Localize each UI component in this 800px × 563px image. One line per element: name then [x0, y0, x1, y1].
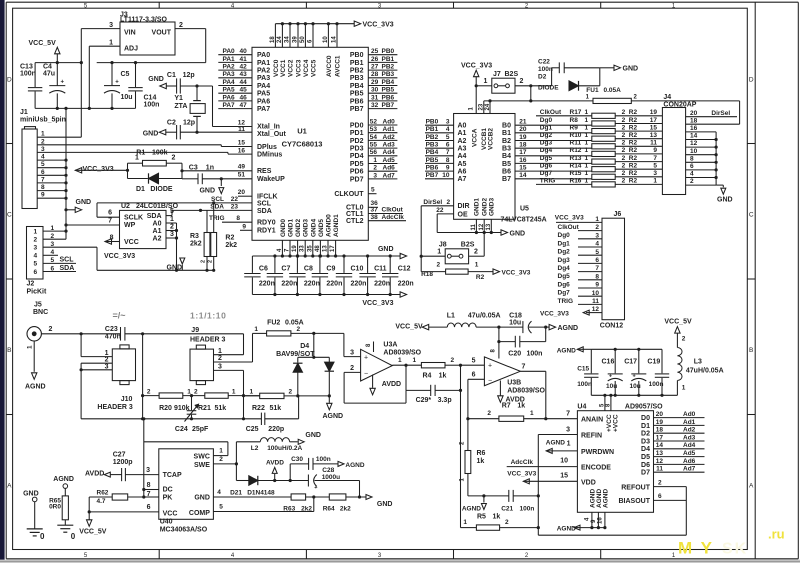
- trimmer capacitor C24 25pF: [175, 394, 209, 433]
- svg-text:J1: J1: [20, 109, 28, 116]
- svg-text:A: A: [7, 483, 12, 490]
- wire U3B output: [520, 370, 546, 372]
- svg-text:C9: C9: [326, 266, 335, 273]
- svg-text:AGND: AGND: [558, 325, 579, 332]
- svg-text:1: 1: [585, 140, 589, 147]
- svg-text:VCC_5V: VCC_5V: [664, 318, 692, 325]
- wire DirSel to J8: [420, 206, 422, 272]
- svg-text:−: −: [364, 371, 368, 378]
- svg-text:54: 54: [370, 134, 378, 141]
- wire GND rail top-left: [35, 107, 135, 109]
- svg-text:PA7: PA7: [223, 102, 236, 109]
- svg-text:15: 15: [650, 124, 658, 131]
- svg-text:AdcClk: AdcClk: [382, 214, 405, 221]
- svg-text:5: 5: [41, 161, 45, 168]
- wire VCC_5V rail: [35, 62, 81, 64]
- svg-text:PB6: PB6: [426, 165, 439, 172]
- svg-text:9: 9: [41, 192, 45, 199]
- wire U3B inverting input: [468, 378, 485, 380]
- resistor R2 2k2: [208, 203, 238, 270]
- svg-text:=/~: =/~: [113, 310, 126, 320]
- diode D4 BAV99/SOT: [276, 333, 334, 397]
- capacitor C7 220n: [267, 254, 298, 296]
- wire SCL net: [97, 202, 252, 204]
- svg-text:25: 25: [371, 48, 379, 55]
- resistor R62 4.7: [89, 490, 144, 512]
- svg-text:PA1: PA1: [223, 56, 236, 63]
- wire analog supply top rail: [591, 348, 662, 350]
- svg-text:100k: 100k: [152, 149, 168, 156]
- wire ground rail mid-left: [97, 269, 214, 271]
- svg-text:11: 11: [650, 140, 657, 147]
- crystal Y1 ZTA: [174, 84, 205, 133]
- svg-text:A2: A2: [458, 138, 467, 145]
- svg-text:GND: GND: [194, 495, 210, 502]
- svg-text:CY7C68013: CY7C68013: [282, 139, 323, 148]
- svg-text:Dg6: Dg6: [558, 281, 571, 288]
- svg-text:Dg4: Dg4: [558, 265, 571, 272]
- resistor R64 2k2: [323, 494, 366, 513]
- U5 GND pins: [471, 198, 495, 235]
- svg-text:1000u: 1000u: [322, 474, 340, 481]
- svg-text:B7: B7: [502, 176, 511, 183]
- diode D2: [538, 73, 600, 91]
- svg-text:6: 6: [658, 493, 662, 500]
- svg-text:DIODE: DIODE: [538, 85, 559, 92]
- svg-text:GND4: GND4: [310, 219, 317, 237]
- svg-text:2: 2: [622, 124, 626, 131]
- svg-text:PA4: PA4: [223, 79, 236, 86]
- resistor R6 1k: [460, 419, 486, 496]
- svg-text:22: 22: [436, 207, 444, 214]
- ground arrow GND at C1: [148, 76, 166, 89]
- svg-text:15: 15: [238, 140, 246, 147]
- svg-text:B0: B0: [502, 123, 511, 130]
- svg-text:37: 37: [371, 207, 379, 214]
- wire OE to ground: [436, 214, 438, 233]
- power arrow VCC_3V3 at R1: [75, 166, 129, 173]
- svg-text:A4: A4: [458, 153, 467, 160]
- power arrow VCC_3V3 above U1: [354, 21, 394, 29]
- svg-text:2: 2: [447, 199, 451, 206]
- svg-text:C7: C7: [281, 266, 290, 273]
- resistor R20 910k: [143, 388, 205, 411]
- svg-text:VCC: VCC: [124, 239, 139, 246]
- svg-text:74LVC8T245A: 74LVC8T245A: [501, 216, 547, 223]
- svg-text:A3: A3: [458, 146, 467, 153]
- capacitor C13 100n: [20, 63, 42, 109]
- svg-text:PK: PK: [163, 495, 173, 502]
- svg-text:1: 1: [475, 262, 479, 269]
- svg-text:PB2: PB2: [382, 64, 395, 71]
- U1 VCC pin names: [273, 55, 342, 77]
- svg-text:14: 14: [332, 36, 338, 43]
- svg-text:56: 56: [370, 149, 378, 156]
- wire divider bottom rail: [81, 418, 261, 420]
- svg-text:J10: J10: [121, 396, 133, 403]
- svg-text:RDY0: RDY0: [257, 220, 276, 227]
- svg-text:J6: J6: [614, 211, 622, 218]
- capacitor C21 100n: [501, 490, 538, 512]
- capacitor C23 470n: [80, 326, 244, 341]
- wire FU2 out to opamp: [312, 332, 315, 335]
- regulator J3 LT1117-3.3/SO: [109, 12, 183, 56]
- svg-text:U4: U4: [577, 404, 586, 411]
- svg-text:SDA: SDA: [210, 203, 224, 210]
- svg-text:Ad7: Ad7: [383, 172, 396, 179]
- ground arrow GND at J4: [717, 188, 733, 203]
- svg-text:R62: R62: [97, 490, 109, 497]
- wire J9 pin3 to divider tap: [214, 369, 244, 371]
- svg-text:1: 1: [170, 216, 174, 223]
- svg-text:CLKOUT: CLKOUT: [334, 191, 364, 198]
- svg-text:R6: R6: [477, 450, 486, 457]
- svg-text:220n: 220n: [398, 281, 414, 288]
- svg-text:1: 1: [585, 163, 589, 170]
- svg-text:10u: 10u: [606, 383, 617, 390]
- svg-text:220n: 220n: [304, 281, 320, 288]
- wire VCC_3V3 rail: [97, 62, 206, 64]
- svg-text:R2: R2: [629, 117, 638, 124]
- svg-text:VCC1: VCC1: [280, 59, 287, 77]
- svg-text:4: 4: [690, 171, 694, 178]
- svg-text:10: 10: [323, 36, 329, 43]
- svg-text:U2: U2: [121, 203, 130, 210]
- svg-text:GND: GND: [143, 130, 159, 137]
- svg-text:AVDD: AVDD: [382, 381, 401, 388]
- svg-text:2: 2: [218, 355, 222, 362]
- svg-text:51k: 51k: [215, 405, 227, 412]
- svg-text:VCC_3V3: VCC_3V3: [502, 269, 531, 276]
- svg-text:16: 16: [690, 125, 698, 132]
- ground arrow GND mid: [167, 258, 185, 272]
- svg-text:40: 40: [240, 48, 248, 55]
- svg-text:AD8039/SO: AD8039/SO: [507, 387, 545, 394]
- svg-text:D3: D3: [641, 438, 650, 445]
- svg-text:AGND: AGND: [462, 505, 481, 512]
- svg-text:AGND: AGND: [557, 347, 576, 354]
- capacitor C2 12p: [166, 119, 252, 139]
- svg-text:VCC0: VCC0: [273, 59, 280, 77]
- wire U3B non-inverting input: [461, 364, 485, 366]
- U1 CLKOUT pin: [334, 186, 376, 198]
- wire J1 pin2 DPlus: [37, 144, 221, 146]
- svg-text:D: D: [749, 77, 754, 84]
- svg-text:R14: R14: [570, 163, 582, 170]
- capacitor C8 220n: [289, 254, 320, 296]
- svg-text:3: 3: [218, 363, 222, 370]
- svg-text:U3B: U3B: [507, 380, 521, 387]
- svg-text:Ad5: Ad5: [383, 157, 396, 164]
- svg-text:1: 1: [585, 170, 589, 177]
- U5 B-side pins: [502, 119, 592, 184]
- svg-text:L3: L3: [694, 358, 702, 365]
- svg-text:VCC_3V3: VCC_3V3: [83, 166, 114, 173]
- power symbol AVDD below U3A: [370, 375, 401, 395]
- svg-text:D2: D2: [641, 431, 650, 438]
- svg-text:Ad4: Ad4: [683, 442, 696, 449]
- svg-text:PA2: PA2: [223, 64, 236, 71]
- svg-text:AGND: AGND: [603, 489, 610, 508]
- svg-text:B6: B6: [502, 169, 511, 176]
- svg-text:10: 10: [690, 148, 698, 155]
- ground arrow AGND below U4: [557, 525, 581, 532]
- U4 REFIN wire: [537, 427, 578, 536]
- svg-text:1: 1: [34, 228, 38, 235]
- U1 CTL pins: [346, 200, 406, 225]
- svg-text:100n: 100n: [520, 505, 535, 512]
- svg-text:Xtal_In: Xtal_In: [257, 124, 280, 131]
- wire input node vertical: [142, 334, 144, 419]
- power symbol VCC_5V: [29, 40, 61, 64]
- U3A input pin numbers: [350, 349, 354, 372]
- capacitor C11 220n: [359, 254, 390, 296]
- svg-text:4: 4: [446, 126, 450, 133]
- svg-text:R21: R21: [198, 405, 211, 412]
- svg-text:3: 3: [566, 427, 570, 434]
- svg-text:6: 6: [34, 269, 38, 276]
- svg-text:0: 0: [40, 532, 45, 541]
- diode D1: [128, 173, 183, 193]
- svg-text:7: 7: [41, 176, 45, 183]
- svg-text:SCL: SCL: [257, 200, 272, 207]
- svg-text:32: 32: [371, 102, 379, 109]
- svg-text:C: C: [749, 212, 754, 219]
- svg-text:R5: R5: [477, 514, 486, 521]
- connector J6 CON12: [600, 211, 625, 329]
- svg-text:47u: 47u: [43, 70, 55, 77]
- power arrow VCC_3V3 at U2: [104, 239, 135, 260]
- wire U2 WP to bus: [66, 224, 120, 226]
- svg-text:1: 1: [398, 357, 402, 364]
- ground arrow GND at C3: [199, 179, 223, 195]
- svg-text:R2: R2: [629, 132, 638, 139]
- svg-text:GND1: GND1: [474, 198, 481, 216]
- svg-text:51k: 51k: [270, 405, 282, 412]
- resistor R5 1k: [461, 514, 539, 531]
- svg-text:7: 7: [653, 155, 657, 162]
- svg-text:+: +: [61, 80, 65, 86]
- power symbol AVDD below U3B: [498, 381, 525, 404]
- svg-text:8: 8: [690, 155, 694, 162]
- svg-text:2: 2: [622, 140, 626, 147]
- svg-text:44: 44: [240, 79, 248, 86]
- svg-text:CON12: CON12: [600, 322, 623, 329]
- svg-text:C11: C11: [374, 266, 387, 273]
- svg-text:1: 1: [585, 155, 589, 162]
- svg-text:Ad2: Ad2: [383, 134, 396, 141]
- svg-text:5: 5: [653, 163, 657, 170]
- wire U40 VCC pin: [88, 504, 159, 514]
- resistor R1 100k: [128, 149, 183, 178]
- svg-text:BNC: BNC: [33, 309, 48, 316]
- svg-text:17: 17: [650, 117, 658, 124]
- svg-text:55: 55: [370, 142, 378, 149]
- IC U5 74LVC8T245A: [454, 114, 547, 224]
- svg-text:+: +: [314, 485, 317, 491]
- svg-text:220n: 220n: [259, 281, 275, 288]
- svg-text:5: 5: [170, 208, 174, 215]
- svg-text:J5: J5: [34, 301, 42, 308]
- svg-text:2: 2: [520, 78, 524, 85]
- svg-text:1: 1: [218, 348, 222, 355]
- svg-text:DMinus: DMinus: [257, 152, 282, 159]
- power symbol VCC_5V at L3: [664, 318, 692, 347]
- svg-text:SDA: SDA: [257, 208, 272, 215]
- svg-text:B: B: [749, 347, 753, 354]
- U4 data pins D0-D7: [641, 411, 704, 477]
- svg-text:TRIG: TRIG: [558, 298, 574, 305]
- U4 ENCODE wire AdcClk: [507, 457, 578, 466]
- svg-text:PB5: PB5: [382, 87, 395, 94]
- ground arrow AGND at D4: [323, 396, 344, 420]
- wire J4 pin20 DirSel: [686, 110, 737, 117]
- svg-text:AGND: AGND: [323, 413, 344, 420]
- svg-text:PB1: PB1: [382, 56, 395, 63]
- resistor R9 R2: [540, 124, 663, 133]
- svg-text:B1: B1: [502, 130, 511, 137]
- U1 RDY pins and TRIG net: [209, 215, 276, 235]
- svg-text:R4: R4: [423, 373, 432, 380]
- svg-text:VCC_3V3: VCC_3V3: [363, 22, 394, 29]
- svg-text:C1: C1: [167, 72, 176, 79]
- svg-text:49: 49: [238, 164, 246, 171]
- svg-text:D2: D2: [538, 73, 547, 80]
- svg-text:+: +: [609, 373, 612, 379]
- svg-text:11: 11: [592, 298, 599, 305]
- svg-text:PB5: PB5: [350, 91, 364, 98]
- svg-text:SWC: SWC: [194, 454, 210, 461]
- ground arrow GND at L2: [298, 432, 321, 444]
- svg-text:Ad6: Ad6: [683, 458, 696, 465]
- svg-text:Ad3: Ad3: [683, 434, 696, 441]
- capacitor C12 220n: [382, 254, 414, 296]
- svg-text:GND: GND: [199, 188, 215, 195]
- svg-text:12: 12: [592, 306, 600, 313]
- svg-text:1: 1: [413, 357, 417, 364]
- svg-text:ANAIN: ANAIN: [581, 417, 603, 424]
- svg-text:C14: C14: [144, 95, 157, 102]
- op-amp U3B AD8039/SO: [484, 349, 545, 395]
- svg-text:2: 2: [682, 336, 686, 343]
- svg-text:DirSel: DirSel: [423, 199, 442, 206]
- capacitor C14 100n: [128, 63, 159, 109]
- svg-text:47uH/0.05A: 47uH/0.05A: [686, 368, 724, 375]
- svg-text:GND5: GND5: [318, 219, 325, 237]
- svg-text:PA7: PA7: [257, 106, 270, 113]
- svg-text:R9: R9: [570, 124, 579, 131]
- svg-text:52: 52: [370, 118, 378, 125]
- capacitor C30 100n: [290, 456, 337, 480]
- resistor R8 R2: [540, 117, 663, 126]
- svg-text:27: 27: [371, 64, 379, 71]
- resistor R16 R2: [536, 178, 662, 187]
- svg-text:Dg4: Dg4: [540, 147, 553, 154]
- svg-text:M Y: M Y: [678, 539, 714, 558]
- svg-text:R8: R8: [570, 117, 579, 124]
- wires J6 signal pins: [558, 224, 603, 305]
- svg-text:R2: R2: [629, 109, 638, 116]
- svg-text:25pF: 25pF: [192, 426, 209, 433]
- diode D21 D1N4148: [230, 476, 308, 497]
- svg-text:2: 2: [350, 365, 354, 372]
- U5 DIR OE pins: [421, 199, 469, 218]
- svg-text:2: 2: [622, 132, 626, 139]
- svg-text:PB7: PB7: [350, 106, 364, 113]
- svg-text:11: 11: [656, 466, 663, 473]
- svg-text:D1N4148: D1N4148: [247, 490, 275, 497]
- inductor L2 100uH/0.2A: [236, 438, 302, 452]
- svg-text:A7: A7: [458, 176, 467, 183]
- svg-text:1: 1: [595, 216, 599, 223]
- svg-text:R3: R3: [190, 233, 199, 240]
- svg-text:1: 1: [373, 157, 377, 164]
- svg-text:A6: A6: [458, 169, 467, 176]
- svg-text:VCC4: VCC4: [303, 59, 310, 77]
- svg-text:2: 2: [373, 165, 377, 172]
- svg-text:R22: R22: [252, 405, 265, 412]
- svg-text:HEADER 3: HEADER 3: [190, 337, 226, 344]
- svg-text:GND: GND: [623, 66, 639, 73]
- svg-text:C18: C18: [509, 312, 522, 319]
- svg-text:220n: 220n: [351, 281, 367, 288]
- svg-text:PB4: PB4: [426, 149, 439, 156]
- svg-text:18: 18: [656, 427, 664, 434]
- svg-text:GND1: GND1: [288, 219, 295, 237]
- svg-text:VCC3: VCC3: [296, 59, 303, 77]
- wire SWE node: [213, 442, 238, 481]
- svg-text:0R0: 0R0: [49, 504, 61, 511]
- svg-text:A0: A0: [153, 220, 162, 227]
- svg-text:Dg7: Dg7: [540, 170, 553, 177]
- op-amp U3A AD8039/SO: [361, 341, 422, 381]
- svg-text:miniUsb_5pin: miniUsb_5pin: [20, 117, 66, 124]
- capacitor C22 100n: [538, 59, 600, 74]
- svg-text:J9: J9: [191, 327, 199, 334]
- svg-text:DIR: DIR: [458, 203, 470, 210]
- svg-text:12: 12: [656, 458, 664, 465]
- svg-text:TRIG: TRIG: [209, 215, 225, 222]
- svg-text:Dg7: Dg7: [558, 290, 571, 297]
- svg-text:Ad4: Ad4: [383, 149, 396, 156]
- svg-text:PB2: PB2: [350, 68, 364, 75]
- svg-text:GND: GND: [378, 246, 394, 253]
- svg-text:220p: 220p: [268, 426, 284, 433]
- svg-text:18: 18: [690, 117, 698, 124]
- svg-text:1: 1: [585, 124, 589, 131]
- svg-text:3: 3: [373, 172, 377, 179]
- power symbol AVDD at D21: [266, 460, 284, 481]
- svg-text:1: 1: [254, 326, 258, 333]
- svg-text:2: 2: [172, 154, 176, 161]
- svg-text:9: 9: [446, 165, 450, 172]
- svg-text:Ad7: Ad7: [683, 466, 696, 473]
- svg-text:10: 10: [560, 457, 568, 464]
- svg-text:PB3: PB3: [350, 75, 364, 82]
- svg-text:BIASOUT: BIASOUT: [619, 498, 651, 505]
- svg-text:GND3: GND3: [303, 219, 310, 237]
- svg-text:C27: C27: [113, 451, 126, 458]
- svg-text:B2S: B2S: [461, 242, 475, 249]
- U1 USB pins: [238, 140, 283, 159]
- svg-text:D4: D4: [641, 446, 650, 453]
- svg-text:5: 5: [595, 249, 599, 256]
- svg-text:5: 5: [472, 357, 476, 364]
- svg-text:VCC_5V: VCC_5V: [79, 529, 107, 536]
- svg-text:10: 10: [592, 290, 600, 297]
- IC U2 24LC01B/SO: [108, 203, 178, 249]
- svg-text:C8: C8: [304, 266, 313, 273]
